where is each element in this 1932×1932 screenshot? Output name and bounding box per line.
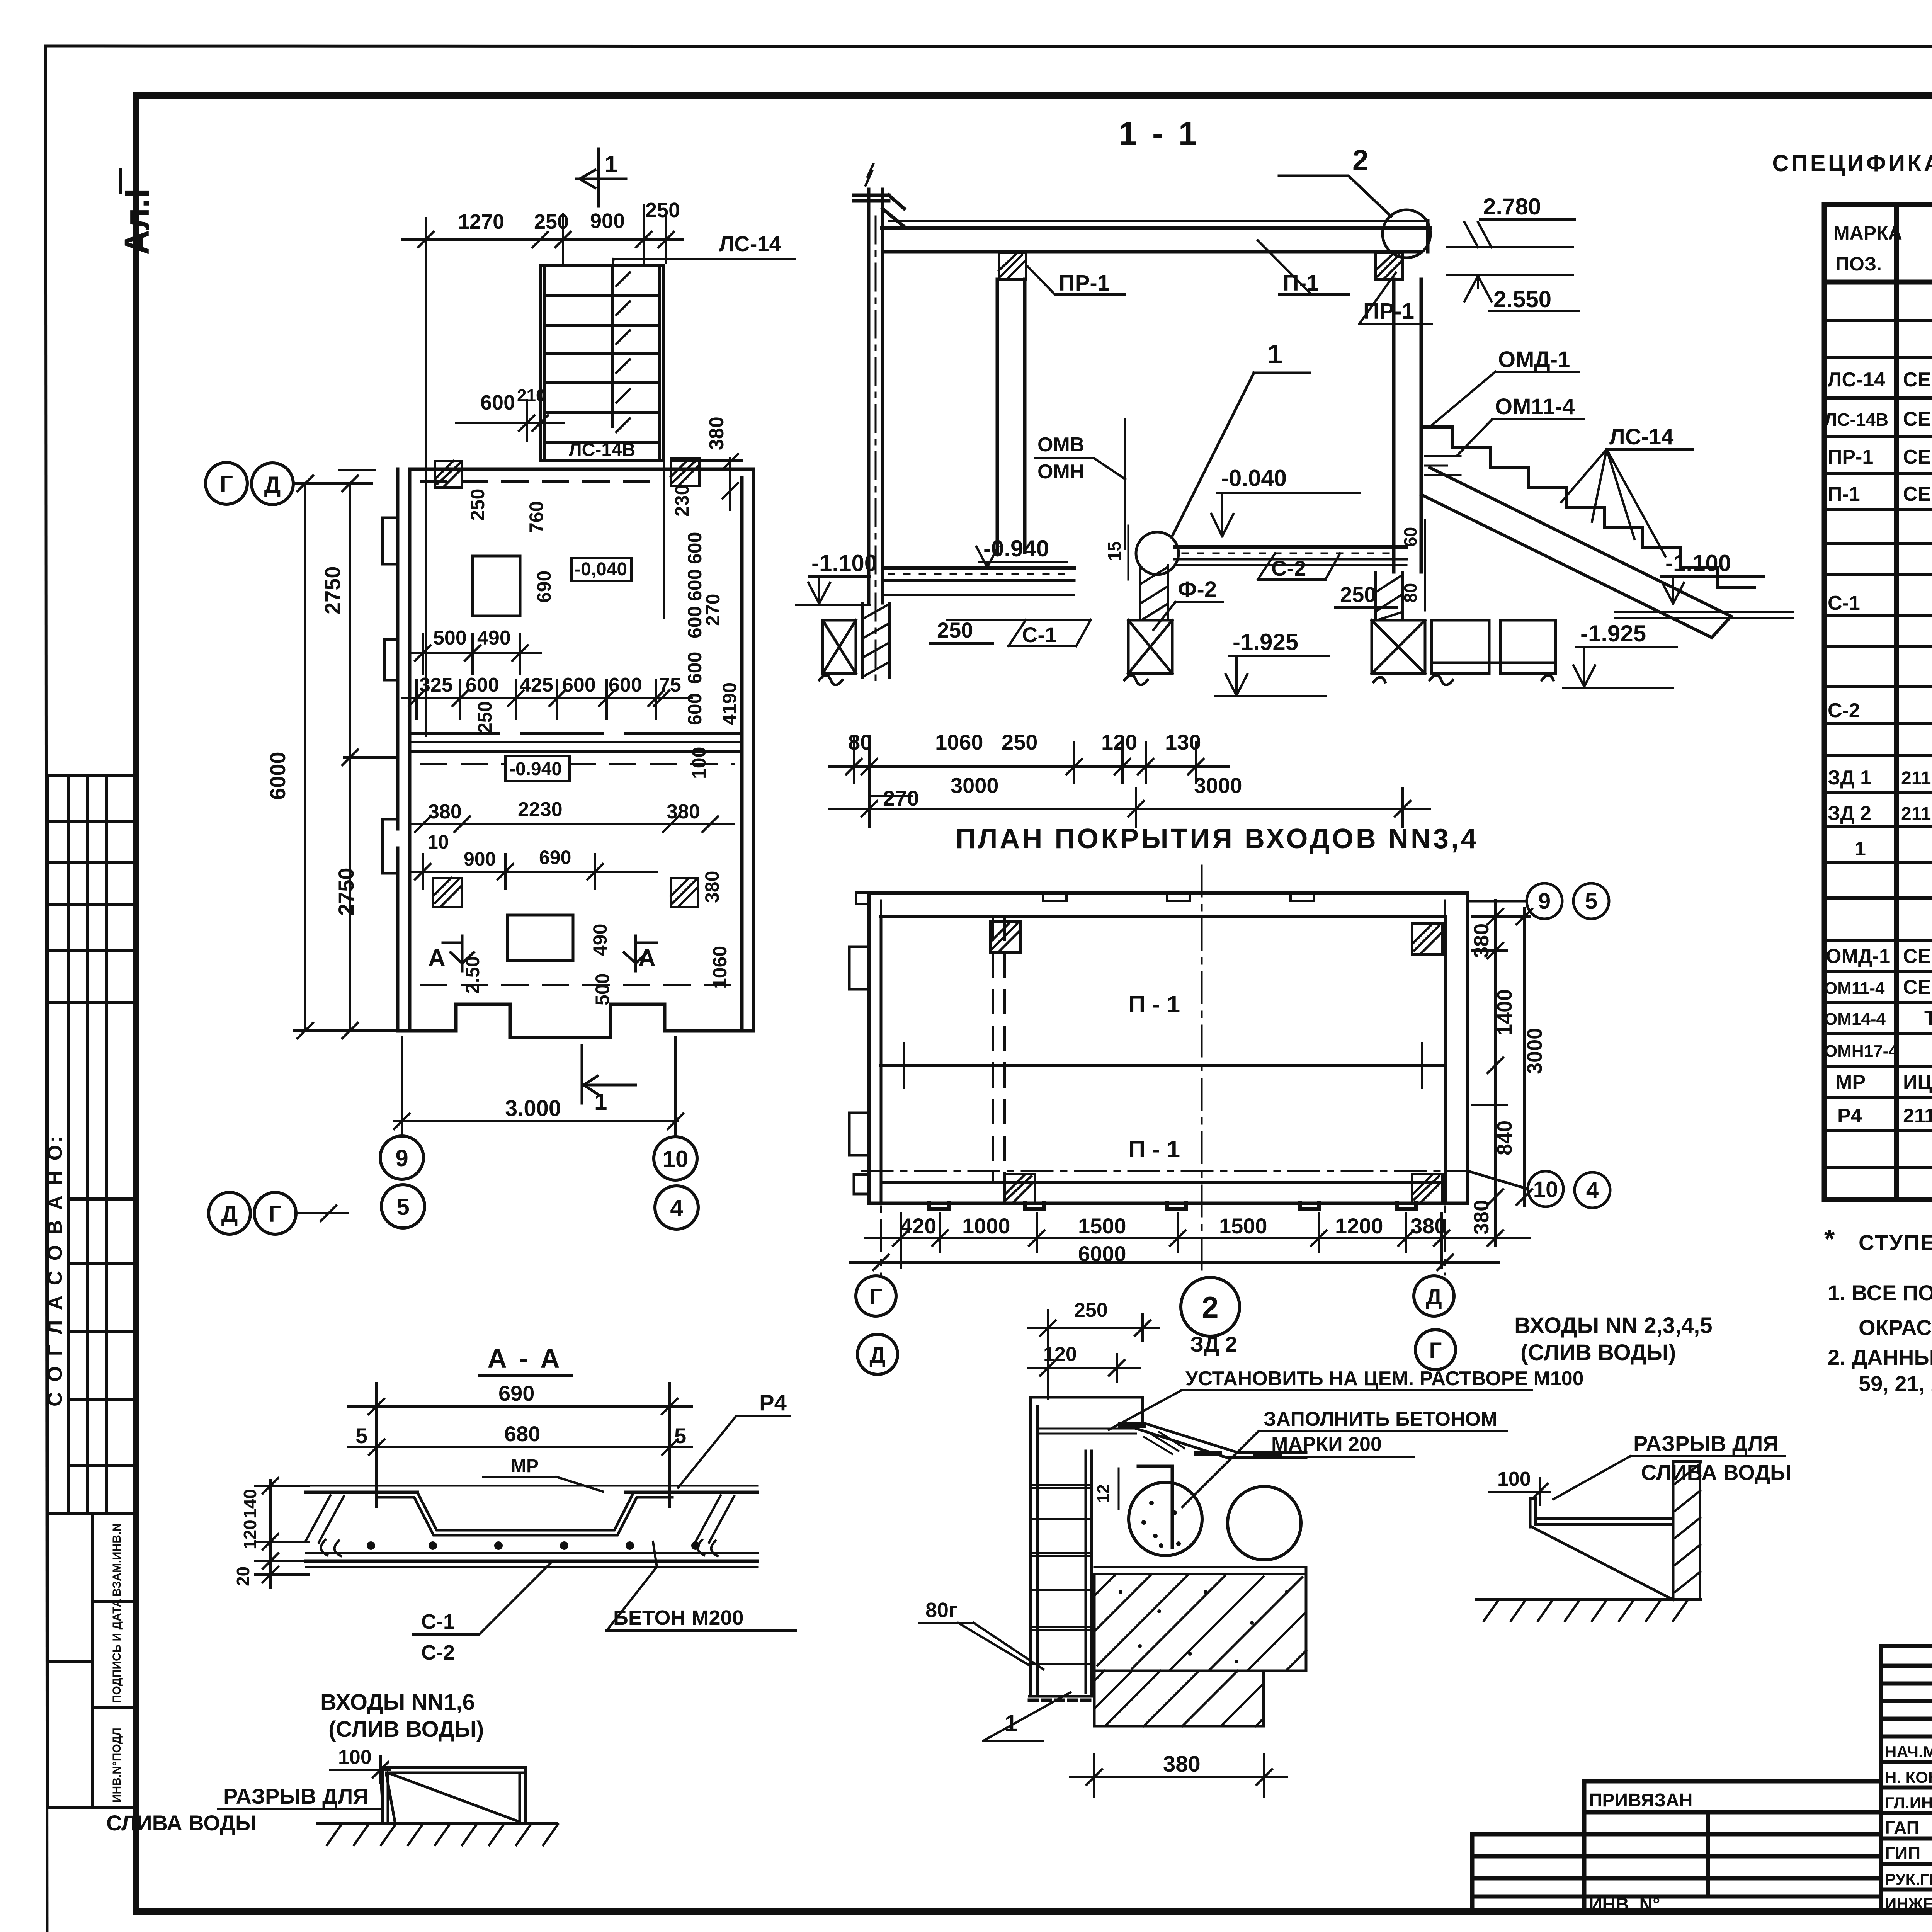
svg-text:1: 1: [594, 1089, 607, 1115]
svg-text:-0,040: -0,040: [575, 559, 627, 580]
svg-text:325: 325: [419, 674, 453, 696]
svg-text:П-1: П-1: [1828, 483, 1860, 505]
bottom axis circles: [380, 1136, 698, 1229]
upper grid: [47, 776, 136, 1002]
callout 2 top right: [1383, 210, 1430, 258]
svg-text:Ал.I: Ал.I: [118, 189, 156, 255]
svg-text:2: 2: [1202, 1290, 1218, 1324]
svg-text:250: 250: [474, 701, 496, 733]
svg-text:ВХОДЫ NN 2,3,4,5: ВХОДЫ NN 2,3,4,5: [1514, 1313, 1713, 1338]
svg-text:Д: Д: [1426, 1284, 1442, 1310]
svg-text:-0.040: -0.040: [1221, 465, 1287, 491]
svg-text:ГЛ.ИНЖ.М: ГЛ.ИНЖ.М: [1885, 1794, 1932, 1812]
svg-text:А: А: [638, 945, 656, 971]
svg-text:59, 21, 22.: 59, 21, 22.: [1859, 1371, 1932, 1396]
section cut 1 top: [577, 149, 626, 206]
svg-text:ПР-1: ПР-1: [1363, 299, 1414, 324]
svg-text:ОМН: ОМН: [1037, 461, 1084, 483]
level boxes: [505, 558, 631, 781]
svg-text:ТО ЖЕ: ТО ЖЕ: [1924, 1007, 1932, 1029]
rotated dims bottom part: [462, 871, 731, 1005]
svg-text:4: 4: [1586, 1178, 1599, 1203]
svg-text:СЕРИЯ 1.055.1-1: СЕРИЯ 1.055.1-1: [1903, 369, 1932, 391]
svg-text:1500: 1500: [1219, 1214, 1267, 1238]
svg-text:ЗД 1: ЗД 1: [1828, 767, 1871, 789]
svg-text:250: 250: [645, 199, 680, 222]
svg-text:СЕРИЯ 1.055.1-1: СЕРИЯ 1.055.1-1: [1903, 408, 1932, 430]
stairs: [1421, 427, 1754, 638]
svg-text:600: 600: [480, 391, 515, 414]
10 900 690 row: [427, 831, 571, 870]
svg-text:425: 425: [520, 674, 553, 696]
svg-text:250: 250: [937, 618, 973, 642]
svg-text:2.50: 2.50: [462, 956, 483, 994]
dashed hidden lines: [421, 480, 652, 483]
svg-text:(СЛИВ ВОДЫ): (СЛИВ ВОДЫ): [328, 1717, 484, 1742]
outer outline: [869, 891, 1467, 895]
svg-text:1: 1: [605, 151, 617, 177]
svg-text:211-1-307.85-АСН. 1200: 211-1-307.85-АСН. 1200: [1903, 1105, 1932, 1127]
top notches: [1043, 893, 1314, 901]
S-2 label: [1271, 556, 1306, 580]
12 small dim: [1094, 1484, 1113, 1503]
svg-text:ОМД-1: ОМД-1: [1498, 347, 1570, 372]
privyazan box: [1584, 1781, 1881, 1913]
notes below table: [1824, 1224, 1932, 1396]
svg-text:140: 140: [240, 1489, 260, 1519]
svg-text:380: 380: [706, 417, 728, 450]
svg-text:380: 380: [1470, 923, 1493, 958]
svg-text:ГАП: ГАП: [1885, 1818, 1919, 1838]
svg-text:СЛИВА ВОДЫ: СЛИВА ВОДЫ: [1641, 1460, 1791, 1485]
svg-text:ГИП: ГИП: [1885, 1843, 1920, 1863]
svg-text:Р4: Р4: [759, 1390, 787, 1415]
600 / 210 dims: [480, 386, 545, 414]
svg-text:С-1: С-1: [1022, 622, 1057, 647]
inside dims rotated: [467, 485, 740, 779]
svg-text:ПОЗ.: ПОЗ.: [1835, 253, 1882, 275]
svg-text:СЕРИЯ 1.090.1-1В5-1: СЕРИЯ 1.090.1-1В5-1: [1903, 483, 1932, 505]
svg-text:380: 380: [667, 801, 700, 823]
svg-text:ВХОДЫ NN1,6: ВХОДЫ NN1,6: [320, 1690, 475, 1715]
svg-text:А: А: [428, 945, 446, 971]
svg-text:Д: Д: [264, 472, 281, 498]
F-2 label: [1178, 577, 1217, 602]
ground squiggles: [819, 675, 1553, 685]
svg-text:600: 600: [609, 674, 642, 696]
svg-text:ОМД-1: ОМД-1: [1826, 945, 1890, 968]
svg-text:МАРКА: МАРКА: [1833, 222, 1902, 244]
svg-text:270: 270: [883, 786, 919, 810]
svg-text:211-1-307.85-АСИ.2100: 211-1-307.85-АСИ.2100: [1901, 768, 1932, 789]
bottom 3000 dim + flag: [505, 1096, 561, 1121]
P-1 labels: [1128, 991, 1180, 1163]
svg-text:380: 380: [1470, 1200, 1493, 1235]
svg-text:ОМН17-4: ОМН17-4: [1824, 1042, 1898, 1061]
svg-text:П - 1: П - 1: [1128, 1136, 1180, 1163]
svg-text:ИНЖЕН.: ИНЖЕН.: [1885, 1895, 1932, 1913]
svg-text:-0.940: -0.940: [509, 759, 562, 779]
top dims: [1043, 1299, 1108, 1366]
svg-text:600: 600: [684, 652, 706, 684]
svg-text:РУК.ГР.Ш: РУК.ГР.Ш: [1885, 1870, 1932, 1888]
svg-text:211-1-307.85-АСН.2200: 211-1-307.85-АСН.2200: [1901, 804, 1932, 824]
svg-text:2750: 2750: [334, 867, 358, 916]
svg-text:ИЦ 03-03 АЛЬБОМ 71-64: ИЦ 03-03 АЛЬБОМ 71-64: [1903, 1071, 1932, 1094]
drawing: [1530, 1461, 1700, 1600]
svg-text:1200: 1200: [1335, 1214, 1383, 1238]
svg-text:СПЕЦИФИКАЦИЯ К СХЕМАМ РАСПОЛОЖ: СПЕЦИФИКАЦИЯ К СХЕМАМ РАСПОЛОЖЕНИЯ ЭЛЕМЕ…: [1772, 150, 1932, 176]
svg-text:1: 1: [1005, 1710, 1017, 1736]
svg-text:600: 600: [562, 674, 596, 696]
svg-text:3000: 3000: [1523, 1028, 1546, 1074]
svg-text:ВЗАМ.ИНВ.N: ВЗАМ.ИНВ.N: [111, 1523, 123, 1597]
columns: [997, 279, 1025, 553]
svg-text:ПОДПИСЬ И ДАТА: ПОДПИСЬ И ДАТА: [111, 1599, 123, 1703]
stair labels: [1495, 347, 1673, 449]
svg-text:Г: Г: [870, 1284, 883, 1310]
callout 1 at slab end: [1136, 532, 1179, 575]
-0.940 mark: [983, 536, 1049, 561]
axes dash-dot: [862, 1170, 1468, 1172]
A section marks: [443, 936, 657, 971]
svg-text:Ф-2: Ф-2: [1178, 577, 1217, 602]
svg-text:2: 2: [1352, 144, 1369, 176]
svg-text:МР: МР: [511, 1456, 539, 1476]
svg-text:900: 900: [590, 209, 625, 233]
svg-text:С-1: С-1: [1828, 592, 1860, 614]
axis circles D G bottom-left: [209, 1192, 348, 1234]
svg-text:ЗАПОЛНИТЬ БЕТОНОМ: ЗАПОЛНИТЬ БЕТОНОМ: [1264, 1408, 1497, 1430]
hatched corner squares: [433, 459, 699, 907]
S-1 label: [1022, 622, 1057, 647]
bottom dims: [900, 1214, 1446, 1266]
svg-text:10: 10: [1533, 1177, 1558, 1202]
left annex: [1472, 1834, 1584, 1896]
svg-text:ПЛАН ПОКРЫТИЯ ВХОДОВ NN3,4: ПЛАН ПОКРЫТИЯ ВХОДОВ NN3,4: [956, 823, 1479, 854]
svg-text:СТУПЕНИ ПОСТАВЛЯЮТСЯ С ЗАКЛА: СТУПЕНИ ПОСТАВЛЯЮТСЯ С ЗАКЛАДНЫМИ ДЕТАЛЯ…: [1859, 1230, 1932, 1255]
left edge with jogs: [867, 893, 871, 1203]
svg-text:490: 490: [477, 627, 511, 649]
level marks 2.780 / 2.550: [1483, 194, 1551, 312]
foundation hatched walls: [862, 565, 1403, 678]
svg-text:15: 15: [1104, 541, 1124, 561]
svg-text:10: 10: [427, 831, 449, 853]
axis circles G D top: [206, 463, 374, 505]
small rects inside: [473, 556, 573, 961]
svg-text:2.550: 2.550: [1493, 286, 1551, 312]
svg-text:1: 1: [1855, 838, 1866, 860]
svg-text:500: 500: [433, 627, 467, 649]
section title 1-1: [1119, 116, 1200, 152]
-0.040 level: [1221, 465, 1287, 491]
stair plan: [540, 266, 664, 618]
svg-text:4190: 4190: [719, 682, 740, 725]
svg-text:-1.925: -1.925: [1233, 629, 1298, 655]
svg-text:380: 380: [428, 801, 462, 823]
250 dims: [937, 582, 1376, 642]
svg-text:Г: Г: [269, 1201, 282, 1227]
top dims 1270 250 900 250: [458, 199, 680, 233]
svg-text:ОМ11-4: ОМ11-4: [1824, 979, 1885, 998]
svg-text:100: 100: [338, 1746, 372, 1769]
bottom axis circles: [856, 1276, 1456, 1374]
svg-text:Г: Г: [1429, 1338, 1442, 1363]
380 right of stair: [706, 417, 728, 450]
svg-text:250: 250: [1340, 582, 1376, 607]
svg-text:Г: Г: [220, 471, 233, 497]
svg-text:УСТАНОВИТЬ НА ЦЕМ. РАСТВОРЕ М1: УСТАНОВИТЬ НА ЦЕМ. РАСТВОРЕ М100: [1185, 1367, 1584, 1390]
svg-text:5: 5: [396, 1194, 409, 1220]
svg-text:ЛС-14: ЛС-14: [1609, 424, 1673, 449]
380 2230 380 row: [428, 798, 700, 823]
svg-text:680: 680: [504, 1422, 540, 1446]
svg-text:ОМВ: ОМВ: [1037, 434, 1084, 456]
svg-text:230: 230: [671, 485, 693, 517]
svg-text:80г: 80г: [925, 1599, 957, 1622]
svg-text:20: 20: [233, 1566, 253, 1586]
verticals: [1894, 205, 1899, 1200]
bottom dimension chains: [848, 730, 1242, 810]
15 / 60 / 80 small dims: [1104, 527, 1420, 603]
foundation blocks: [823, 620, 1556, 673]
svg-text:Н. КОНТР: Н. КОНТР: [1885, 1768, 1932, 1786]
svg-text:9: 9: [395, 1145, 408, 1171]
svg-text:С-1: С-1: [421, 1610, 455, 1633]
left edge jogs: [383, 518, 398, 873]
concrete hatch block: [1094, 1567, 1306, 1671]
svg-text:100: 100: [688, 747, 710, 779]
svg-text:2750: 2750: [320, 566, 345, 614]
svg-text:ОКРАСИТЬ ГОРЯЧИМ БИТУМОМ ЗА 2: ОКРАСИТЬ ГОРЯЧИМ БИТУМОМ ЗА 2 РАЗА.: [1859, 1315, 1932, 1340]
LS-14 label top: [719, 231, 781, 256]
380 dim: [1163, 1752, 1201, 1777]
svg-text:1000: 1000: [962, 1214, 1010, 1238]
325 600 425 600 600 75 row: [419, 674, 681, 696]
svg-text:ОМ11-4: ОМ11-4: [1495, 394, 1575, 419]
PR-1 / P-1 labels: [1059, 270, 1414, 324]
labels: [421, 1599, 957, 1664]
lower floor -0.940 slab: [883, 566, 1074, 570]
left stamp column: [47, 776, 136, 1807]
OMV/OMN label: [1037, 434, 1084, 483]
svg-text:С-2: С-2: [421, 1641, 455, 1664]
svg-text:500: 500: [592, 973, 613, 1005]
svg-text:250: 250: [1074, 1299, 1108, 1321]
svg-text:1270: 1270: [458, 210, 504, 233]
svg-text:П - 1: П - 1: [1128, 991, 1180, 1018]
-1.100 marks: [811, 550, 1731, 576]
svg-text:ЛС-14: ЛС-14: [1828, 369, 1885, 391]
80g leader + 1 mark: [958, 1623, 1029, 1665]
right edge: [1445, 893, 1467, 1203]
svg-text:5: 5: [1585, 889, 1597, 914]
svg-text:210: 210: [517, 386, 545, 405]
svg-text:Д: Д: [869, 1343, 885, 1368]
svg-text:380: 380: [701, 871, 723, 903]
svg-text:600: 600: [684, 532, 706, 564]
svg-text:РАЗРЫВ ДЛЯ: РАЗРЫВ ДЛЯ: [223, 1784, 369, 1808]
svg-text:ИНВ.N°ПОДЛ: ИНВ.N°ПОДЛ: [111, 1728, 123, 1803]
svg-text:ЛС-14В: ЛС-14В: [569, 440, 635, 460]
soglasovano box: [47, 1002, 136, 1513]
wall ladder left: [1029, 1397, 1094, 1700]
slab with dots top right: [1306, 1458, 1306, 1567]
svg-text:СЛИВА ВОДЫ: СЛИВА ВОДЫ: [106, 1811, 257, 1835]
svg-text:380: 380: [1163, 1752, 1201, 1777]
labels with leaders: [1185, 1332, 1584, 1456]
svg-text:900: 900: [464, 848, 496, 870]
svg-text:-1.925: -1.925: [1580, 621, 1646, 646]
svg-text:ОМ14-4: ОМ14-4: [1824, 1010, 1886, 1029]
svg-text:ЛС-14: ЛС-14: [719, 231, 781, 256]
support pads hatched: [999, 253, 1403, 279]
LS-14V label: [569, 440, 635, 460]
svg-text:60: 60: [1400, 527, 1420, 547]
svg-text:Д: Д: [221, 1201, 238, 1227]
svg-text:5: 5: [355, 1423, 367, 1448]
svg-text:100: 100: [1497, 1468, 1531, 1490]
right vertical dims: [1470, 923, 1546, 1235]
table header text: [1772, 150, 1932, 323]
svg-text:С О Г Л А С О В А Н О:: С О Г Л А С О В А Н О:: [44, 1134, 66, 1406]
svg-text:ЛС-14В: ЛС-14В: [1825, 410, 1888, 430]
svg-text:690: 690: [533, 571, 555, 603]
anchor bar: [1138, 1466, 1172, 1548]
middle divider: [881, 1064, 1445, 1067]
svg-text:3000: 3000: [1194, 773, 1242, 798]
svg-text:270: 270: [702, 594, 724, 626]
svg-text:3.000: 3.000: [505, 1096, 561, 1121]
svg-text:600: 600: [466, 674, 499, 696]
svg-text:ПР-1: ПР-1: [1059, 270, 1110, 296]
svg-text:ПР-1: ПР-1: [1828, 446, 1873, 468]
svg-text:А - А: А - А: [487, 1344, 562, 1374]
P4 label: [759, 1390, 787, 1415]
left wall: [869, 189, 883, 603]
svg-text:МР: МР: [1835, 1071, 1866, 1094]
axis circles right: [1467, 883, 1610, 1208]
svg-text:250: 250: [1002, 730, 1037, 754]
svg-text:ЗД 2: ЗД 2: [1828, 802, 1871, 825]
svg-text:1060: 1060: [935, 730, 983, 754]
500 490 row: [433, 627, 511, 649]
svg-text:СЕРИЯ 1.050.1-2: СЕРИЯ 1.050.1-2: [1903, 976, 1932, 998]
svg-text:2.780: 2.780: [1483, 194, 1541, 219]
top box + flashing: [1031, 1397, 1306, 1458]
mid wall band: [410, 733, 742, 752]
svg-text:2230: 2230: [518, 798, 563, 821]
brick hatch block lower: [1094, 1671, 1264, 1726]
svg-text:НАЧ.МАСТ: НАЧ.МАСТ: [1885, 1743, 1932, 1761]
svg-text:1 - 1: 1 - 1: [1119, 116, 1200, 152]
svg-text:690: 690: [539, 847, 571, 868]
svg-text:1500: 1500: [1078, 1214, 1126, 1238]
svg-text:4: 4: [670, 1195, 683, 1221]
bottom tabs: [929, 1203, 1416, 1209]
bottom: [869, 1202, 1467, 1205]
svg-text:-1.100: -1.100: [1665, 550, 1731, 576]
svg-text:(СЛИВ ВОДЫ): (СЛИВ ВОДЫ): [1520, 1340, 1676, 1365]
svg-text:1. ВСЕ ПОВЕРХНОСТИ, СОПРИКАСАЮ: 1. ВСЕ ПОВЕРХНОСТИ, СОПРИКАСАЮЩИЕСЯ С ГР…: [1828, 1281, 1932, 1305]
-1.925 marks: [1233, 621, 1646, 655]
svg-text:2. ДАННЫЙ ЛИСТ СМ. СОВМЕСТНО С: 2. ДАННЫЙ ЛИСТ СМ. СОВМЕСТНО С ЛИСТАМИ: [1828, 1345, 1932, 1369]
svg-text:Р4: Р4: [1837, 1105, 1862, 1127]
svg-text:1: 1: [1267, 339, 1282, 369]
svg-text:ЗД 2: ЗД 2: [1190, 1332, 1237, 1356]
svg-text:С-2: С-2: [1271, 556, 1306, 580]
left small dims: [233, 1489, 260, 1586]
svg-text:3000: 3000: [951, 773, 999, 798]
svg-text:760: 760: [526, 501, 547, 533]
hatched squares: [990, 922, 1442, 1203]
svg-text:1060: 1060: [709, 946, 731, 989]
floor slab -0.040: [1175, 545, 1406, 549]
svg-text:*: *: [1824, 1224, 1835, 1254]
6000 / 2750 dims left: [265, 566, 358, 916]
svg-text:120: 120: [1101, 730, 1137, 754]
svg-text:690: 690: [498, 1381, 534, 1405]
svg-text:10: 10: [663, 1146, 689, 1172]
svg-text:12: 12: [1094, 1484, 1113, 1503]
slab: [305, 1486, 757, 1567]
big circles: [1129, 1482, 1301, 1560]
wall cap: [854, 195, 904, 209]
inv table: [47, 1513, 136, 1807]
svg-text:490: 490: [589, 924, 611, 956]
svg-text:250: 250: [467, 489, 488, 521]
svg-text:5: 5: [674, 1423, 686, 1448]
svg-text:СЕРИЯ 1.050.1-2: СЕРИЯ 1.050.1-2: [1903, 945, 1932, 968]
svg-text:-1.100: -1.100: [811, 550, 877, 576]
svg-text:С-2: С-2: [1828, 699, 1860, 722]
plan outline: [398, 469, 753, 1037]
svg-text:РАЗРЫВ ДЛЯ: РАЗРЫВ ДЛЯ: [1633, 1431, 1779, 1456]
svg-text:120: 120: [240, 1520, 260, 1549]
hidden beams dashed: [993, 917, 1005, 1182]
svg-text:БЕТОН М200: БЕТОН М200: [613, 1606, 744, 1629]
svg-text:ИНВ. N°: ИНВ. N°: [1589, 1895, 1660, 1915]
svg-text:6000: 6000: [265, 752, 290, 800]
svg-text:СЕРИЯ 138-10 В-1: СЕРИЯ 138-10 В-1: [1903, 446, 1932, 468]
table body text: [1824, 293, 1932, 1197]
svg-text:9: 9: [1538, 889, 1551, 914]
roof slab: [889, 220, 1428, 222]
svg-text:ПРИВЯЗАН: ПРИВЯЗАН: [1589, 1790, 1692, 1811]
